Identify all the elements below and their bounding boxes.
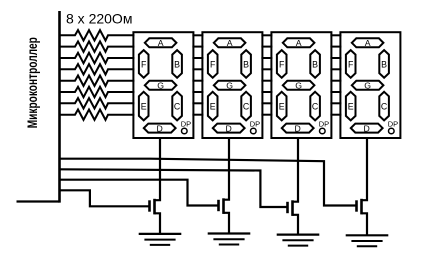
svg-text:A: A [227, 38, 233, 48]
microcontroller right edge (bus) [58, 11, 61, 203]
svg-text:F: F [210, 60, 216, 70]
Q3 drain wire to display HG3 common pin [293, 137, 299, 202]
Q1 gate plate [148, 200, 151, 211]
svg-text:E: E [348, 102, 354, 112]
segment F [277, 50, 287, 78]
wire segment bus row 8 gap 2 [261, 114, 272, 116]
segment B [310, 50, 320, 78]
Q3 gate plate [286, 202, 289, 213]
wire segment bus row 3 gap 2 [261, 57, 272, 59]
svg-text:Микроконтроллер: Микроконтроллер [24, 37, 40, 128]
segment F [346, 50, 356, 78]
svg-text:DP: DP [319, 119, 329, 128]
svg-text:DP: DP [388, 119, 398, 128]
wire digit-4 gate from MCU [60, 159, 357, 206]
seven-segment display HG2 [202, 32, 262, 138]
ground symbol GND1 [139, 234, 182, 245]
svg-text:A: A [296, 38, 302, 48]
resistor R2 [60, 41, 135, 51]
ground symbol GND2 [208, 234, 251, 245]
Q4 channel [360, 199, 363, 215]
wire segment bus row 1 gap 2 [261, 34, 272, 36]
resistor R6 [60, 87, 135, 97]
display HG3 body [271, 32, 331, 138]
wire segment bus row 1 gap 3 [330, 34, 341, 36]
Q4 source wire [362, 213, 368, 235]
segment G [283, 81, 315, 90]
wire segment bus row 6 gap 2 [261, 91, 272, 93]
Q3 channel [291, 200, 294, 216]
ground symbol GND4 [346, 235, 389, 246]
wire segment bus row 2 gap 1 [192, 46, 203, 48]
segment A [145, 38, 177, 47]
display HG2 body [202, 32, 262, 138]
segment D [144, 124, 176, 133]
svg-text:A: A [365, 38, 371, 48]
Q1 source wire [155, 213, 161, 234]
segment C [310, 92, 320, 121]
resistor R1 [60, 30, 135, 40]
wire segment bus row 6 gap 3 [330, 91, 341, 93]
svg-text:G: G [157, 81, 164, 91]
wire segment bus row 3 gap 1 [192, 57, 203, 59]
segment E [277, 92, 287, 121]
segment E [139, 92, 149, 121]
Q2 source wire [224, 213, 230, 234]
resistor R8 [60, 110, 135, 120]
wire segment bus row 7 gap 1 [192, 102, 203, 104]
segment D [282, 124, 314, 133]
segment A [283, 38, 315, 47]
Q2 gate plate [217, 200, 220, 211]
microcontroller bottom edge [17, 200, 60, 202]
seven-segment display HG3 [271, 32, 331, 138]
wire segment bus row 7 gap 2 [261, 102, 272, 104]
segment C [241, 92, 251, 121]
seven-segment display HG1 [133, 32, 193, 138]
wire segment bus row 2 gap 3 [330, 46, 341, 48]
svg-text:G: G [295, 81, 302, 91]
wire segment bus row 6 gap 1 [192, 91, 203, 93]
decimal point DP circle [251, 128, 257, 134]
wire segment bus row 5 gap 1 [192, 80, 203, 82]
segment D [351, 124, 383, 133]
wire digit-3 gate from MCU [60, 169, 288, 207]
segment B [379, 50, 389, 78]
segment D [213, 124, 245, 133]
segment C [379, 92, 389, 121]
svg-text:DP: DP [250, 119, 260, 128]
svg-text:E: E [279, 102, 285, 112]
resistor R3 [60, 53, 135, 63]
svg-text:8 x 220Ом: 8 x 220Ом [66, 10, 132, 26]
Q1 drain wire to display HG1 common pin [155, 137, 161, 200]
transistor Q4 (n-channel MOSFET) [357, 137, 368, 235]
segment A [352, 38, 384, 47]
svg-text:F: F [279, 60, 285, 70]
svg-text:DP: DP [181, 119, 191, 128]
transistor Q3 (n-channel MOSFET) [288, 137, 299, 235]
wire segment bus row 2 gap 2 [261, 46, 272, 48]
wire segment bus row 3 gap 3 [330, 57, 341, 59]
svg-text:B: B [312, 60, 318, 70]
svg-text:C: C [174, 102, 181, 112]
segment C [172, 92, 182, 121]
wire digit-1 gate from MCU [60, 190, 150, 206]
svg-text:C: C [381, 102, 388, 112]
wire segment bus row 4 gap 3 [330, 68, 341, 70]
resistor R7 [60, 98, 135, 108]
wire segment bus row 8 gap 3 [330, 114, 341, 116]
svg-text:D: D [295, 123, 301, 133]
Q2 channel [222, 198, 225, 214]
Q2 drain wire to display HG2 common pin [224, 137, 230, 200]
wire segment bus row 4 gap 2 [261, 68, 272, 70]
Q4 gate plate [355, 200, 358, 211]
segment E [346, 92, 356, 121]
Q4 drain wire to display HG4 common pin [362, 137, 368, 200]
svg-text:A: A [158, 38, 164, 48]
svg-text:D: D [157, 123, 163, 133]
seven-segment display HG4 [340, 32, 400, 138]
segment B [172, 50, 182, 78]
segment F [139, 50, 149, 78]
svg-text:C: C [312, 102, 319, 112]
resistor R5 [60, 76, 135, 86]
wire segment bus row 5 gap 2 [261, 80, 272, 82]
wire digit-2 gate from MCU [60, 180, 219, 206]
wire segment bus row 4 gap 1 [192, 68, 203, 70]
wire segment bus row 1 gap 1 [192, 34, 203, 36]
segment E [208, 92, 218, 121]
segment A [214, 38, 246, 47]
segment G [145, 81, 177, 90]
display HG1 body [133, 32, 193, 138]
Q1 channel [153, 199, 156, 215]
svg-text:E: E [210, 102, 216, 112]
svg-text:D: D [364, 123, 370, 133]
svg-text:G: G [364, 81, 371, 91]
wire segment bus row 5 gap 3 [330, 80, 341, 82]
svg-text:B: B [381, 60, 387, 70]
display HG4 body [340, 32, 400, 138]
svg-text:F: F [348, 60, 354, 70]
wire segment bus row 7 gap 3 [330, 102, 341, 104]
ground symbol GND3 [277, 235, 320, 246]
segment G [352, 81, 384, 90]
resistor R4 [60, 64, 135, 74]
decimal point DP circle [182, 128, 188, 134]
svg-text:G: G [226, 81, 233, 91]
transistor Q1 (n-channel MOSFET) [150, 137, 161, 234]
segment G [214, 81, 246, 90]
svg-text:E: E [141, 102, 147, 112]
Q3 source wire [293, 215, 299, 235]
svg-text:F: F [141, 60, 147, 70]
segment F [208, 50, 218, 78]
svg-text:B: B [174, 60, 180, 70]
decimal point DP circle [320, 128, 326, 134]
segment B [241, 50, 251, 78]
svg-text:D: D [226, 123, 232, 133]
svg-text:B: B [243, 60, 249, 70]
transistor Q2 (n-channel MOSFET) [219, 137, 230, 234]
wire segment bus row 8 gap 1 [192, 114, 203, 116]
svg-text:C: C [243, 102, 250, 112]
decimal point DP circle [389, 128, 395, 134]
